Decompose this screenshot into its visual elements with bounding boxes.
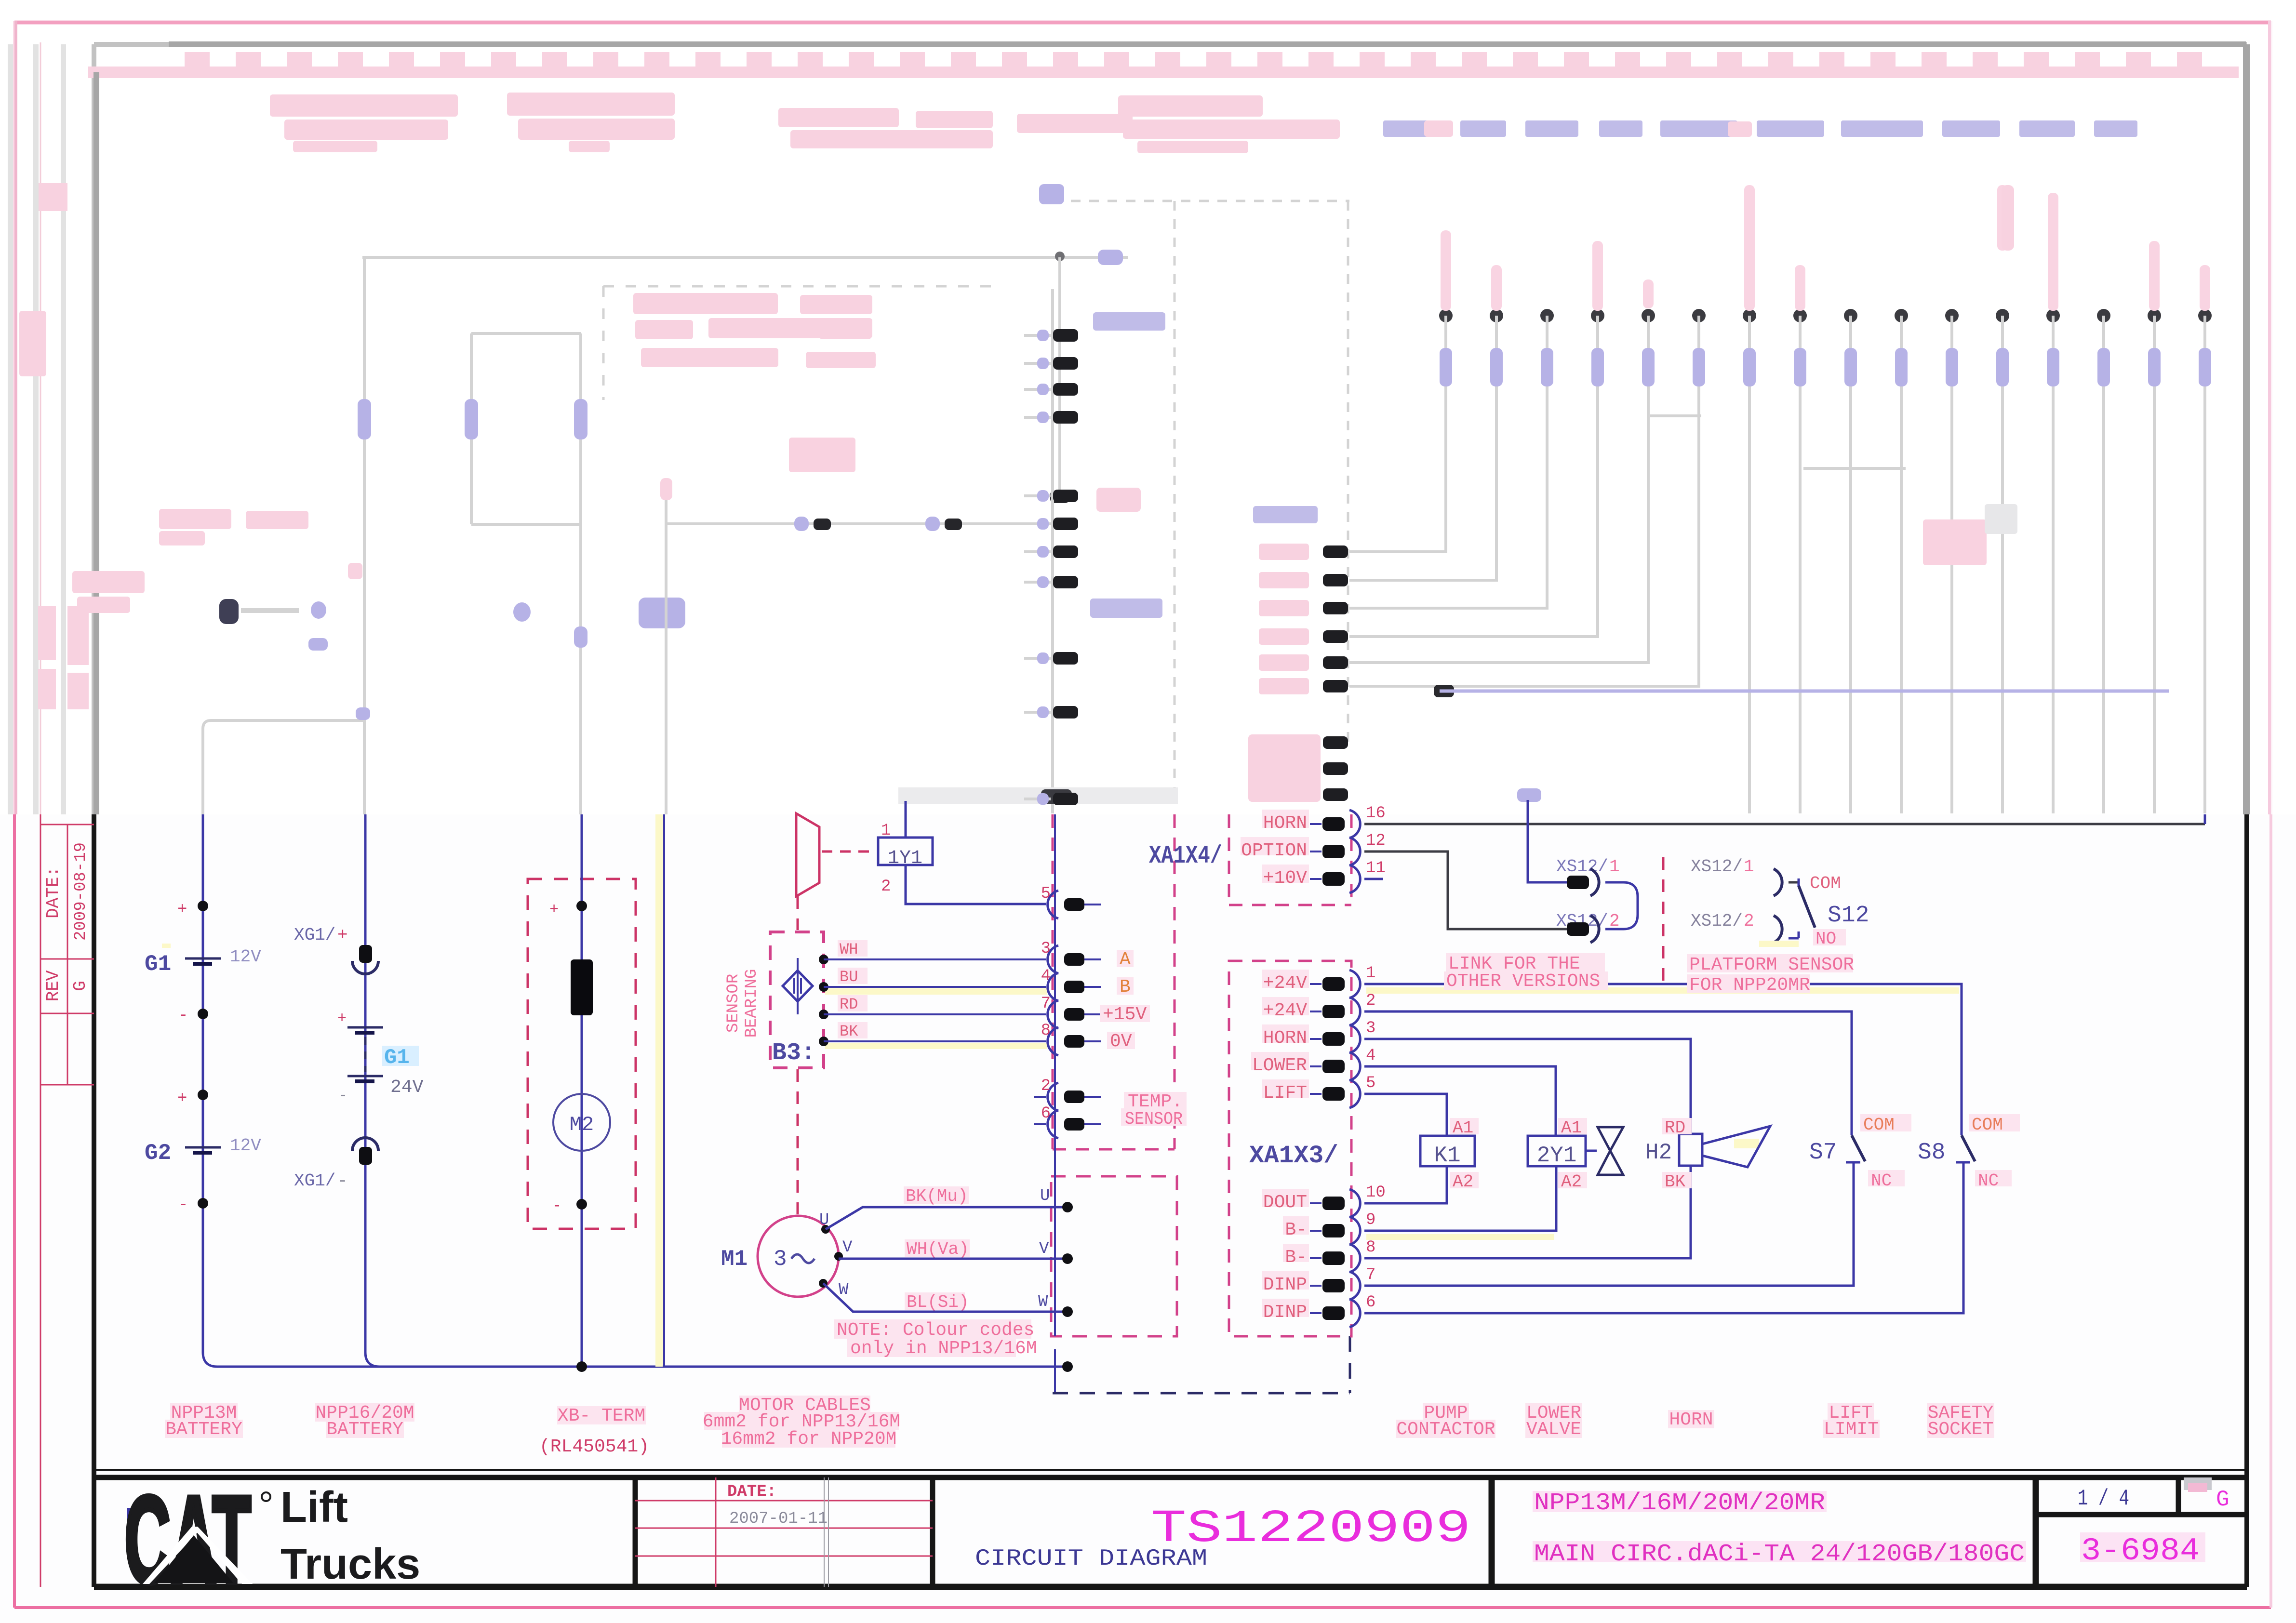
svg-text:+: + (337, 925, 348, 945)
svg-text:LIMIT: LIMIT (1824, 1419, 1879, 1440)
svg-text:DATE:: DATE: (43, 866, 63, 918)
pin 16 XA1X3 HORN (1262, 804, 1386, 838)
svg-text:Trucks: Trucks (280, 1540, 420, 1588)
doc number TS1220909 (1151, 1503, 1471, 1555)
svg-text:9: 9 (1366, 1211, 1375, 1229)
svg-text:1 / 4: 1 / 4 (2078, 1486, 2129, 1511)
svg-text:5: 5 (1041, 885, 1051, 903)
svg-text:+15V: +15V (1103, 1004, 1147, 1025)
svg-text:BK: BK (840, 1023, 858, 1040)
node battery + top (177, 901, 208, 919)
svg-text:OTHER VERSIONS: OTHER VERSIONS (1446, 971, 1600, 992)
svg-text:BATTERY: BATTERY (165, 1419, 242, 1440)
faded long lavender wire (1434, 685, 1454, 697)
label SOCKET (1927, 1419, 1994, 1440)
pin 11 XA1X3 +10V (1262, 859, 1386, 893)
label HORN (1668, 1410, 1714, 1430)
svg-text:V: V (1039, 1240, 1049, 1258)
wire pin1 +24V to S8 (1364, 984, 1962, 1135)
svg-text:+24V: +24V (1263, 1000, 1307, 1021)
svg-text:A: A (1120, 949, 1131, 970)
label XA1X3 (1249, 1142, 1338, 1170)
svg-text:H2: H2 (1645, 1140, 1672, 1165)
pin 7 XA1X4 (1041, 995, 1150, 1028)
motor M2 (553, 1094, 610, 1151)
svg-text:PLATFORM SENSOR: PLATFORM SENSOR (1689, 955, 1854, 975)
node battery + mid2 (177, 1090, 208, 1108)
wire pin4 LOWER to 2Y1 (1364, 1066, 1556, 1136)
label M1 (721, 1247, 748, 1272)
svg-text:7: 7 (1041, 995, 1051, 1013)
wire B3 RD to pin 7 (819, 995, 1046, 1019)
wire XG1 column (365, 814, 380, 1367)
wire pin3 HORN to H2 (1364, 1039, 1691, 1134)
wire pin5 LIFT to K1 (1364, 1094, 1447, 1136)
svg-text:12: 12 (1366, 832, 1386, 850)
svg-text:+: + (177, 901, 187, 919)
svg-text:XS12/: XS12/ (1691, 857, 1743, 877)
svg-text:XA1X4/: XA1X4/ (1149, 842, 1222, 870)
svg-text:10: 10 (1366, 1184, 1386, 1202)
dashed box motor cables (1051, 1176, 1177, 1336)
sidebar REV value G (70, 981, 90, 991)
svg-text:1: 1 (1744, 857, 1754, 877)
svg-text:NOTE: Colour codes: NOTE: Colour codes (837, 1320, 1034, 1341)
svg-text:NO: NO (1815, 929, 1836, 949)
svg-text:XA1X3/: XA1X3/ (1249, 1142, 1338, 1170)
pin 3 XA1X4 (1041, 940, 1134, 973)
wire link U-shape (1605, 882, 1638, 929)
svg-text:XS12/: XS12/ (1556, 857, 1608, 877)
svg-text:2: 2 (1609, 911, 1620, 931)
dashed box XB- terminal (528, 879, 636, 1229)
faded connector pins column x2200 (1024, 312, 1165, 805)
rev G cell (2184, 1477, 2229, 1512)
wire pin9 B- from 2Y1 (1364, 1166, 1556, 1240)
dashed box XA1X3 (1229, 961, 1351, 1336)
svg-text:NC: NC (1978, 1171, 1999, 1191)
svg-text:G1: G1 (145, 952, 171, 977)
label XB- TERM (557, 1406, 646, 1426)
label (RL450541) (539, 1437, 649, 1457)
svg-text:A2: A2 (1453, 1172, 1473, 1192)
pin 3 XA1X3 HORN (1262, 1019, 1375, 1053)
svg-text:OPTION: OPTION (1241, 840, 1307, 861)
svg-text:4: 4 (1041, 967, 1051, 985)
svg-text:BK: BK (1665, 1172, 1686, 1192)
wire pin16 HORN to top (1364, 814, 2205, 824)
svg-text:8: 8 (1041, 1022, 1051, 1040)
sheet 1/4 (2078, 1486, 2129, 1511)
pin 2 XA1X3 +24V (1262, 992, 1375, 1025)
pin 8 XA1X3 B- (1283, 1238, 1375, 1272)
svg-text:M2: M2 (570, 1113, 594, 1136)
svg-text:11: 11 (1366, 859, 1386, 878)
wire pin11 stub (1364, 878, 1383, 880)
valve coil 2Y1 (1528, 1118, 1597, 1192)
pin 7 XA1X3 DINP (1262, 1266, 1375, 1300)
pin 4 XA1X3 LOWER (1251, 1047, 1375, 1080)
wire pin10 DOUT from K1 (1364, 1166, 1447, 1203)
svg-text:G: G (70, 981, 90, 991)
svg-text:-: - (178, 1196, 188, 1214)
svg-text:1: 1 (1366, 964, 1375, 983)
svg-text:HORN: HORN (1669, 1410, 1713, 1430)
model NPP13M/16M/20M/20MR (1533, 1490, 1827, 1517)
svg-text:+: + (177, 1090, 187, 1108)
svg-text:16mm2 for NPP20M: 16mm2 for NPP20M (721, 1429, 897, 1450)
svg-text:G1: G1 (384, 1046, 410, 1070)
battery G1 12V (145, 944, 261, 977)
connector XS12/2 link (1556, 911, 1620, 943)
battery G1 24V (337, 1010, 424, 1104)
svg-text:DOUT: DOUT (1263, 1192, 1307, 1213)
svg-text:REV: REV (43, 970, 63, 1001)
CAT logo (124, 1470, 420, 1609)
drawing number 3-6984 (2080, 1532, 2205, 1569)
faded connector pins column x2772 (1248, 506, 1348, 802)
node bus end (1062, 1361, 1073, 1372)
title MAIN CIRC (1533, 1541, 2026, 1568)
dashed box XA1X4 (1053, 814, 1175, 1149)
connector XG1/- (294, 1138, 378, 1191)
wire from top to XS12/1 (1517, 788, 1567, 882)
svg-text:TS1220909: TS1220909 (1151, 1503, 1471, 1555)
faded wire: horizontal y1087 with inline connectors (666, 517, 1053, 531)
label NPP13M (170, 1403, 238, 1423)
svg-text:RD: RD (1665, 1118, 1685, 1138)
faded wire: top horizontal bus (362, 250, 1128, 265)
faded small connector symbols row (219, 563, 685, 651)
svg-text:Lift: Lift (280, 1483, 348, 1531)
label NPP16/20M (315, 1403, 414, 1423)
svg-text:NC: NC (1871, 1171, 1892, 1191)
svg-text:A2: A2 (1561, 1172, 1582, 1192)
wire 1Y1 to pin 5 (906, 801, 1046, 904)
outer pink border top segment (14, 21, 2271, 814)
svg-text:2: 2 (1744, 911, 1754, 931)
svg-text:1: 1 (881, 822, 891, 840)
svg-text:3: 3 (774, 1247, 787, 1272)
svg-text:(RL450541): (RL450541) (539, 1437, 649, 1457)
pin 5 XA1X4 (1041, 885, 1101, 918)
svg-text:3: 3 (1041, 940, 1051, 958)
svg-text:6: 6 (1041, 1104, 1051, 1123)
revision sidebar table (40, 825, 94, 1085)
svg-text:A1: A1 (1453, 1118, 1473, 1138)
faded wire: column x421 with corner (203, 707, 370, 814)
pin 6 XA1X3 DINP (1262, 1293, 1375, 1327)
svg-text:FOR NPP20MR: FOR NPP20MR (1689, 975, 1810, 996)
svg-text:M1: M1 (721, 1247, 748, 1272)
svg-text:G2: G2 (145, 1141, 171, 1166)
label SENSOR BEARING (724, 969, 761, 1038)
svg-text:2007-01-11: 2007-01-11 (729, 1510, 828, 1528)
faded ghost S-region text (1923, 504, 2017, 565)
svg-text:+: + (337, 1010, 347, 1027)
sidebar REV label (43, 970, 63, 1001)
svg-text:XB- TERM: XB- TERM (558, 1406, 645, 1426)
wire B3 BU to pin 4 (819, 968, 1047, 995)
contactor K1 (1420, 1118, 1479, 1192)
label B3 (772, 1039, 815, 1067)
svg-text:2: 2 (881, 878, 891, 896)
svg-text:only in NPP13/16M: only in NPP13/16M (850, 1338, 1037, 1359)
label 6mm2 for NPP13/16M (703, 1411, 900, 1432)
svg-text:BEARING: BEARING (743, 969, 761, 1038)
svg-text:B-: B- (1285, 1220, 1307, 1240)
pin 2 XA1X4 temp (1034, 1077, 1101, 1111)
svg-text:B3:: B3: (772, 1039, 815, 1067)
pin 9 XA1X3 B- (1283, 1211, 1375, 1245)
svg-text:2009-08-19: 2009-08-19 (72, 842, 90, 941)
node M2 + (549, 901, 587, 918)
svg-text:-: - (178, 1007, 188, 1025)
svg-text:+10V: +10V (1263, 868, 1307, 889)
wire controller left edge (1054, 814, 1056, 1393)
pin 4 XA1X4 (1041, 967, 1134, 1001)
pin 8 XA1X4 (1041, 1022, 1135, 1055)
faded wire: battery column x756 (358, 257, 371, 814)
node U terminal (1040, 1187, 1073, 1212)
horn H2 (1645, 1118, 1770, 1192)
svg-text:XS12/: XS12/ (1691, 911, 1743, 931)
wire pin12 OPTION to XS12/2 (1364, 851, 1567, 929)
svg-text:SOCKET: SOCKET (1928, 1419, 1994, 1440)
faded connector dot row and drop wires (1349, 185, 2212, 813)
label MOTOR CABLES (739, 1395, 871, 1416)
label LOWER (1525, 1403, 1582, 1423)
svg-text:LOWER: LOWER (1252, 1055, 1307, 1076)
svg-text:HORN: HORN (1263, 813, 1307, 834)
date value 2007-01-11 (729, 1510, 828, 1528)
sensor symbol B3 (783, 958, 813, 1014)
faded controller dashed outline (1039, 184, 1349, 813)
svg-text:5: 5 (1366, 1074, 1375, 1092)
valve symbol (1598, 1127, 1623, 1175)
svg-text:DINP: DINP (1263, 1275, 1307, 1295)
dashed separator S12 (1662, 857, 1665, 986)
svg-text:BK(Mu): BK(Mu) (906, 1186, 968, 1206)
sidebar date value (72, 842, 90, 941)
svg-text:XG1/: XG1/ (294, 1171, 335, 1191)
svg-text:CONTACTOR: CONTACTOR (1396, 1419, 1495, 1440)
svg-text:K1: K1 (1434, 1143, 1460, 1168)
svg-text:-: - (337, 1171, 348, 1191)
svg-text:-: - (338, 1087, 347, 1104)
svg-text:S7: S7 (1809, 1140, 1837, 1166)
title block frame (94, 1470, 2247, 1587)
svg-text:8: 8 (1366, 1238, 1375, 1257)
svg-text:12V: 12V (230, 1136, 261, 1156)
dashed box XA1X3 upper (1229, 814, 1351, 905)
svg-text:3-6984: 3-6984 (2081, 1533, 2200, 1569)
node M2 bus junction (576, 1361, 587, 1372)
faded sidebar pink marks (38, 183, 89, 709)
svg-text:BL(Si): BL(Si) (907, 1292, 969, 1312)
svg-text:7: 7 (1366, 1266, 1375, 1284)
svg-text:WH: WH (840, 941, 858, 958)
svg-text:+: + (549, 901, 559, 918)
label VALVE (1525, 1419, 1582, 1440)
faded dashed annotation box (603, 286, 991, 400)
svg-text:BU: BU (840, 968, 858, 986)
faded wire: column x1382 (660, 478, 672, 814)
solenoid 1Y1 (878, 822, 933, 896)
svg-text:HORN: HORN (1263, 1028, 1307, 1049)
svg-text:RD: RD (840, 996, 858, 1013)
pin 12 XA1X3 OPTION (1241, 832, 1386, 865)
note colour codes (834, 1319, 1037, 1359)
svg-text:6: 6 (1366, 1293, 1375, 1312)
svg-text:W: W (1038, 1293, 1048, 1311)
faded frame lines upper half (8, 44, 2246, 814)
label BATTERY (165, 1419, 243, 1440)
svg-text:DINP: DINP (1263, 1302, 1307, 1323)
svg-text:COM: COM (1810, 874, 1841, 893)
switch S12 (1799, 874, 1869, 929)
label platform sensor (1687, 954, 1854, 996)
svg-text:SENSOR: SENSOR (1125, 1109, 1183, 1129)
pin 10 XA1X3 DOUT (1262, 1184, 1386, 1217)
faded pink text blobs (19, 93, 2137, 613)
switch S8 (1918, 1114, 2020, 1191)
svg-text:16: 16 (1366, 804, 1386, 823)
svg-text:WH(Va): WH(Va) (907, 1239, 969, 1259)
pin 1 XA1X3 +24V (1262, 964, 1375, 998)
svg-text:BATTERY: BATTERY (326, 1419, 403, 1440)
pin 5 XA1X3 LIFT (1262, 1074, 1375, 1108)
node V terminal (1039, 1240, 1073, 1264)
node M2 - (552, 1197, 587, 1215)
svg-text:0V: 0V (1110, 1031, 1132, 1052)
faded top pink ruler band (88, 52, 2239, 78)
connector XS12/1 sensor (1691, 857, 1799, 896)
svg-text:S8: S8 (1918, 1140, 1946, 1166)
svg-text:-: - (552, 1197, 561, 1215)
node battery - bottom (178, 1196, 208, 1214)
faded wire: vertical x2199 (1050, 257, 1069, 503)
svg-text:XG1/: XG1/ (294, 925, 335, 945)
label XA1X4 (1149, 842, 1222, 870)
wire B3 BK to pin 8 (819, 1022, 1047, 1049)
svg-text:U: U (1040, 1187, 1050, 1205)
svg-text:COM: COM (1972, 1115, 2003, 1135)
svg-text:NPP13M/16M/20M/20MR: NPP13M/16M/20M/20MR (1534, 1490, 1825, 1517)
svg-text:W: W (839, 1281, 849, 1299)
svg-text:2: 2 (1366, 992, 1375, 1010)
label CIRCUIT DIAGRAM (975, 1546, 1207, 1572)
label BATTERY (326, 1419, 404, 1440)
title block date table (635, 1477, 933, 1587)
dashed controller bottom (1053, 1336, 1350, 1393)
sidebar DATE label (43, 866, 63, 918)
label LIMIT (1823, 1419, 1880, 1440)
label PUMP (1423, 1403, 1469, 1423)
svg-text:COM: COM (1863, 1115, 1895, 1135)
wire M1 U phase (819, 1186, 1068, 1234)
wire pin6 DINP from S8 (1364, 1162, 1963, 1313)
faded wash over upper half (0, 0, 2296, 814)
wire M1 V phase (834, 1238, 1068, 1261)
svg-text:U: U (819, 1211, 829, 1229)
svg-text:2: 2 (1041, 1077, 1051, 1095)
label SAFETY (1927, 1403, 1994, 1423)
svg-text:3: 3 (1366, 1019, 1375, 1038)
svg-text:V: V (842, 1238, 853, 1257)
faded wire: loop x978-x1205 (465, 333, 587, 814)
node battery - mid (178, 1007, 208, 1025)
motor M1 (758, 1216, 839, 1297)
wire pin2 +24V to S7 (1364, 1011, 1852, 1135)
label CONTACTOR (1396, 1419, 1495, 1440)
connector XS12/1 link (1556, 857, 1620, 896)
wire pin8 B- from H2 (1364, 1165, 1691, 1258)
svg-text:4: 4 (1366, 1047, 1375, 1065)
label 16mm2 for NPP20M (721, 1429, 897, 1450)
faded band above XA1X4 (898, 787, 1178, 804)
dashed box sensor bearing B3 (770, 896, 824, 1214)
label DATE (727, 1483, 776, 1501)
svg-text:2Y1: 2Y1 (1537, 1143, 1577, 1168)
svg-text:A1: A1 (1561, 1118, 1582, 1138)
svg-text:DATE:: DATE: (727, 1483, 776, 1501)
speaker symbol 1Y1 (796, 813, 876, 896)
svg-text:S12: S12 (1828, 903, 1869, 929)
svg-text:G: G (2216, 1487, 2229, 1512)
svg-text:VALVE: VALVE (1526, 1419, 1581, 1440)
svg-text:12V: 12V (230, 947, 261, 967)
svg-text:SENSOR: SENSOR (724, 974, 743, 1033)
wire pin7 DINP from S7 (1364, 1162, 1854, 1286)
label LIFT (1828, 1403, 1874, 1423)
node W terminal (1038, 1293, 1073, 1317)
wire battery column (203, 814, 1068, 1367)
svg-text:24V: 24V (390, 1077, 424, 1098)
battery G2 12V (145, 1136, 261, 1166)
label link for other versions (1444, 953, 1608, 992)
svg-text:B: B (1120, 977, 1131, 998)
connector XG1/+ (294, 925, 378, 974)
pin 6 XA1X4 temp (1034, 1104, 1101, 1138)
svg-text:+24V: +24V (1263, 973, 1307, 994)
wire M2 column (581, 814, 583, 1367)
connector XS12/2 sensor (1691, 911, 1846, 949)
switch S7 (1809, 1114, 1911, 1191)
left revision sidebar vertical line (40, 42, 41, 1587)
yellow highlighted wire column (655, 814, 664, 1367)
svg-text:MAIN CIRC.dACi-TA 24/120GB/180: MAIN CIRC.dACi-TA 24/120GB/180GC (1534, 1541, 2025, 1568)
wire B3 WH to pin 3 (819, 940, 1046, 964)
svg-text:1: 1 (1609, 857, 1620, 877)
wire M1 W phase (819, 1279, 1068, 1312)
svg-text:B-: B- (1285, 1247, 1307, 1268)
fuse XB- (571, 959, 593, 1015)
label TEMP SENSOR (1121, 1091, 1187, 1129)
svg-text:LIFT: LIFT (1263, 1083, 1307, 1104)
